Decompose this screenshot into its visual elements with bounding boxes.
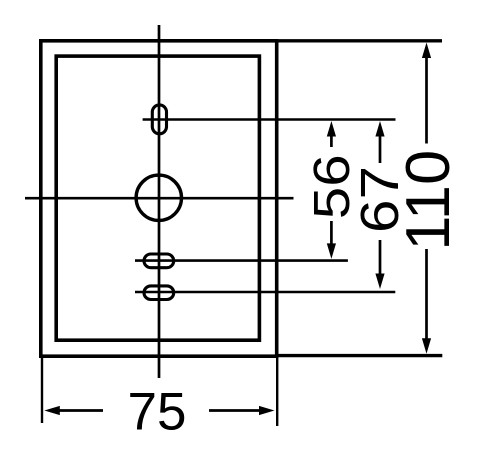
mid horizontal slot: [144, 254, 174, 268]
top vertical slot: [152, 105, 166, 134]
dimension 75 right arrow: [209, 409, 262, 412]
110 top extension line: [276, 39, 442, 42]
dimension 110 lower arrow: [425, 249, 428, 342]
dimension 67 lower arrow: [379, 240, 382, 278]
dimension 110 upper arrow: [425, 54, 428, 144]
horizontal centerline: [25, 197, 294, 200]
svg-text:67: 67: [350, 166, 410, 233]
dimension 56 upper arrow: [330, 132, 333, 147]
dimension 75 left arrow: [56, 409, 103, 412]
top slot leader line: [143, 118, 396, 121]
low horizontal slot: [144, 286, 174, 300]
dimension 56 lower arrow: [330, 221, 333, 247]
outer plate rectangle: [41, 41, 277, 356]
low slot leader line: [135, 291, 395, 294]
mid slot leader line: [135, 259, 348, 262]
75 right extension line: [276, 357, 278, 426]
svg-text:75: 75: [128, 383, 187, 442]
center circle: [136, 175, 181, 220]
110 bottom extension line: [276, 354, 442, 357]
vertical centerline: [158, 25, 161, 378]
75 left extension line: [41, 357, 43, 423]
inner plate rectangle: [56, 56, 259, 340]
dimension 67 upper arrow: [379, 132, 382, 163]
